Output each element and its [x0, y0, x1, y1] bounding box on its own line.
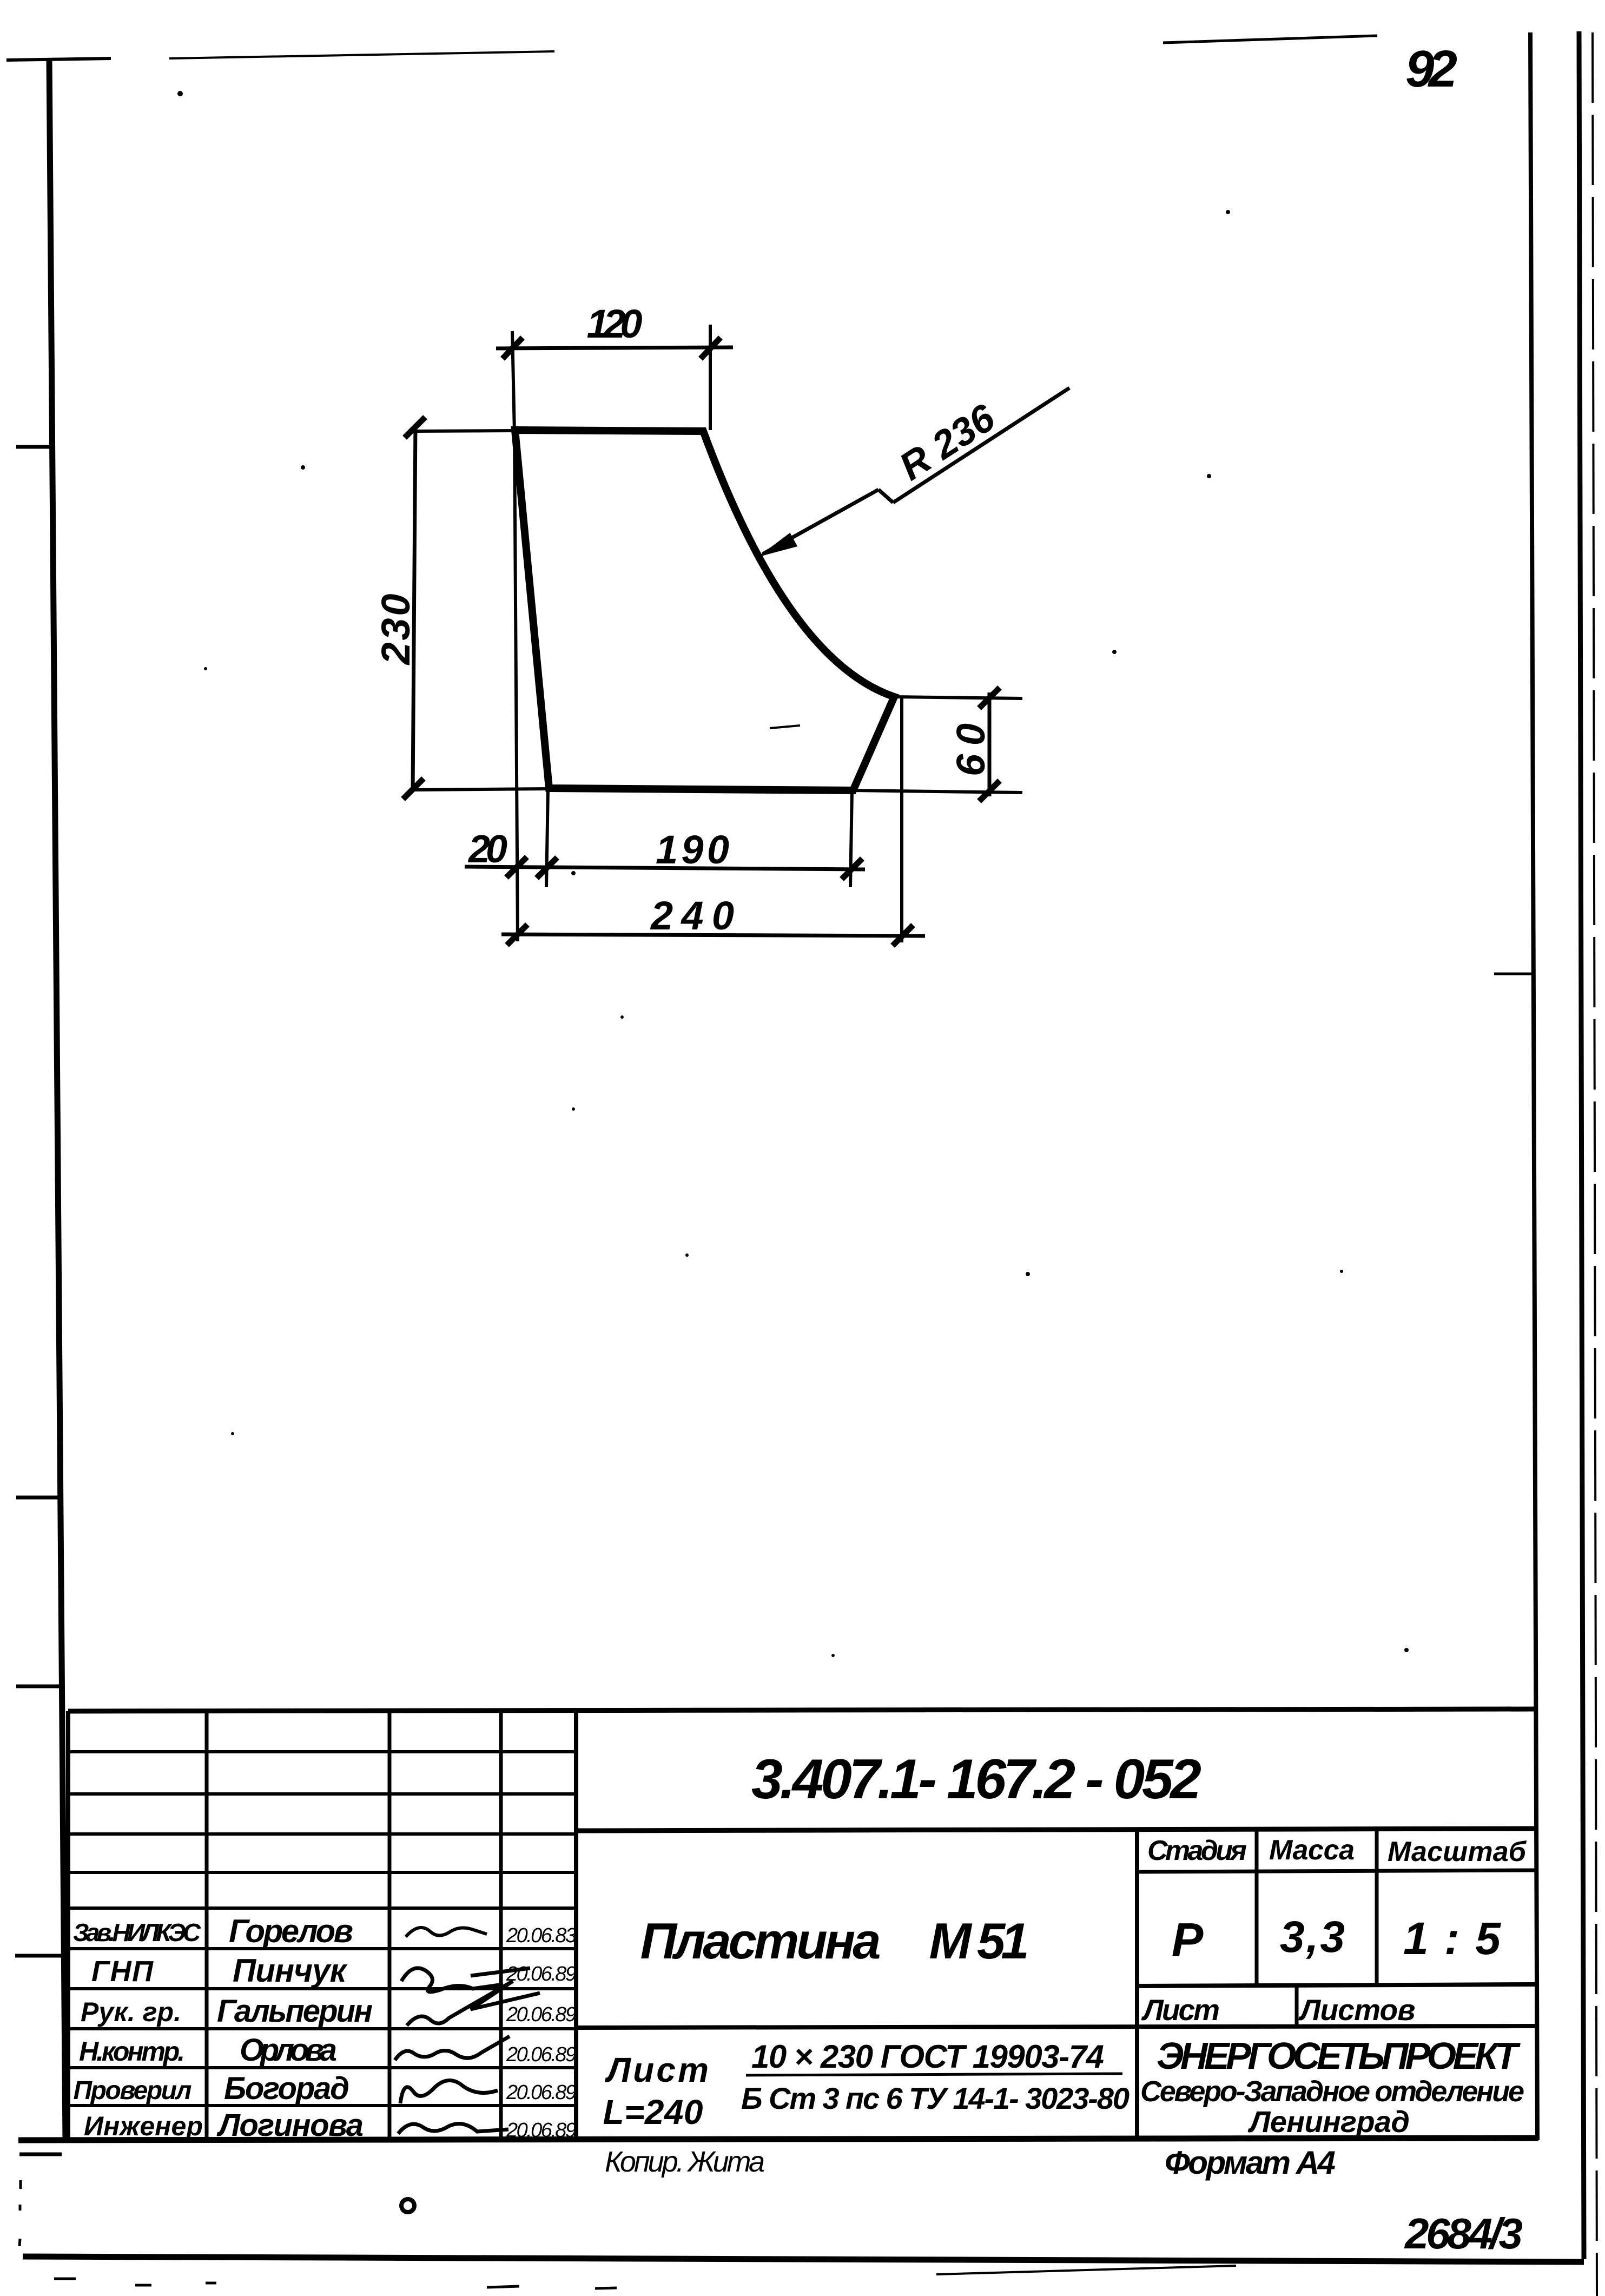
signature scribble row 5 [400, 2080, 498, 2103]
svg-text:Р: Р [1172, 1913, 1204, 1967]
title block bottom border [18, 2138, 1538, 2140]
svg-text:L=240: L=240 [603, 2093, 703, 2132]
scan dashes bottom 4 [487, 2286, 519, 2287]
signature scribble row 2 [401, 1968, 530, 1992]
svg-text:Орлова: Орлова [240, 2033, 337, 2068]
svg-text:ГНП: ГНП [91, 1955, 154, 1988]
frame top border segment B [169, 51, 554, 58]
dimension 230 extension bottom [413, 789, 549, 790]
signature scribble row 6 [398, 2124, 508, 2134]
scan speck dot 2 [1226, 210, 1230, 214]
svg-text:Стадия: Стадия [1147, 1835, 1247, 1866]
signature table row line 5 [68, 1906, 576, 1910]
svg-text:Горелов: Горелов [229, 1913, 353, 1949]
paper edge right line [1579, 31, 1584, 2259]
extension line right for 240 [900, 698, 903, 942]
fold tick right [1494, 973, 1532, 975]
scan artifact line bottom [936, 2266, 1236, 2274]
svg-text:Копир. Жита: Копир. Жита [605, 2146, 765, 2178]
dimension 60 tick top [979, 688, 1000, 708]
svg-text:Логинова: Логинова [216, 2108, 364, 2143]
subtable vertical left [1135, 1830, 1139, 2139]
frame top border segment C [1163, 36, 1377, 43]
dimension 190 tick right [842, 859, 862, 879]
svg-text:3,3: 3,3 [1280, 1912, 1345, 1962]
dimension 60 extension bottom [853, 790, 1022, 793]
svg-text:3.407.1- 167.2 - 052: 3.407.1- 167.2 - 052 [751, 1748, 1201, 1811]
svg-text:Богорад: Богорад [224, 2071, 349, 2106]
signature table row line 7 [68, 1987, 576, 1990]
leader R236 zigzag [879, 490, 893, 503]
svg-text:20.06.89: 20.06.89 [506, 1963, 577, 1985]
svg-text:190: 190 [656, 827, 729, 872]
dimension 230 tick bottom [403, 778, 424, 799]
svg-text:Лист: Лист [605, 2050, 709, 2089]
svg-text:Пинчук: Пинчук [233, 1952, 348, 1989]
svg-text:Н.контр.: Н.контр. [79, 2036, 185, 2067]
signature scribble row 4 [395, 2036, 510, 2060]
svg-text:92: 92 [1405, 40, 1457, 98]
scan dashes bottom 3 [206, 2282, 216, 2285]
svg-text:ЭНЕРГОСЕТЬПРОЕКТ: ЭНЕРГОСЕТЬПРОЕКТ [1157, 2035, 1521, 2077]
dimension 120 line [496, 347, 733, 348]
svg-text:20.06.89: 20.06.89 [506, 2003, 577, 2026]
signature table row line 9 [68, 2066, 576, 2069]
signature table row line 3 [68, 1832, 576, 1836]
svg-text:Проверил: Проверил [74, 2076, 192, 2105]
dimension 230 line [413, 425, 415, 791]
svg-text:М 51: М 51 [929, 1912, 1029, 1969]
interior dash mark [770, 725, 800, 728]
dimension 120 tick left [503, 338, 523, 359]
handwritten small circle [401, 2199, 414, 2212]
signature table row line 6 [68, 1947, 576, 1950]
leader R236 arrow [762, 534, 796, 555]
name row bottom line [576, 2026, 1535, 2028]
svg-text:Листов: Листов [1298, 1993, 1416, 2027]
scan dashes bottom 2 [135, 2284, 151, 2287]
signature table row line 1 [68, 1750, 576, 1753]
svg-text:230: 230 [373, 594, 418, 666]
svg-text:Пластина: Пластина [640, 1912, 881, 1969]
svg-text:Ленинград: Ленинград [1247, 2104, 1410, 2139]
subtable values bottom line [1137, 1984, 1535, 1986]
svg-text:Северо-Западное отделение: Северо-Западное отделение [1140, 2075, 1524, 2108]
dimension 60 extension top [894, 697, 1022, 698]
scan speck dot extra a [301, 465, 305, 470]
extension line from top-left corner down [514, 433, 518, 941]
dimension 20-190 line [465, 867, 865, 869]
svg-text:Формат А4: Формат А4 [1165, 2145, 1336, 2181]
svg-text:1 : 5: 1 : 5 [1403, 1913, 1501, 1964]
signature table vertical col4 [499, 1711, 503, 2139]
signature table vertical col3 [388, 1711, 392, 2139]
frame right border [1530, 32, 1537, 2140]
dimension 60 line [988, 692, 992, 796]
dimension 120 extension left [512, 331, 514, 433]
signature scribble row 1 [406, 1928, 487, 1937]
dimension 20-190 tick middle [537, 857, 557, 878]
svg-text:20: 20 [467, 828, 507, 871]
svg-text:10 × 230 ГОСТ 19903-74: 10 × 230 ГОСТ 19903-74 [751, 2038, 1104, 2075]
frame left border [49, 58, 65, 2141]
fold tick left 1 [16, 445, 51, 449]
designation cell bottom line [576, 1829, 1535, 1831]
scan dashes bottom 1 [54, 2278, 76, 2280]
dimension 240 tick right [893, 925, 913, 946]
plate outline [515, 430, 894, 790]
svg-text:20.06.83: 20.06.83 [506, 1924, 577, 1947]
signature table row line 2 [68, 1792, 576, 1796]
subtable header bottom line [1137, 1870, 1535, 1872]
scan speck dot 1 [177, 91, 183, 96]
list listov divider [1295, 1986, 1299, 2028]
svg-text:Инженер: Инженер [84, 2111, 203, 2141]
extension line from bottom-right slant corner down [850, 790, 852, 887]
dimension 120 tick right [701, 338, 721, 359]
leader R236 segment 1 [763, 490, 879, 554]
signature scribble row 3 [407, 1981, 540, 2026]
dimension 120 extension right [709, 325, 712, 430]
extension line from bottom-left corner down [546, 789, 548, 887]
dimension 230 tick top [405, 417, 425, 438]
scan dashes bottom 5 [595, 2288, 617, 2288]
title block top border [68, 1709, 1535, 1711]
paper edge right dashed line [1593, 32, 1597, 2296]
dimension 20 tick left [506, 857, 527, 878]
leader R236 segment 2 [893, 388, 1069, 503]
scan speck dot 3 [571, 871, 576, 875]
svg-text:2684/3: 2684/3 [1404, 2209, 1523, 2258]
signature table row line 10 [68, 2104, 576, 2107]
svg-text:Масштаб: Масштаб [1388, 1836, 1527, 1868]
fold tick left 2 [16, 1496, 62, 1500]
svg-text:20.06.89: 20.06.89 [506, 2043, 577, 2066]
svg-text:20.06.89: 20.06.89 [506, 2119, 577, 2142]
fold tick left 5 [19, 2153, 62, 2156]
svg-text:120: 120 [587, 301, 643, 346]
frame top border segment A [6, 58, 111, 60]
fold tick left 3 [16, 1685, 63, 1688]
frame bottom border [23, 2257, 1584, 2262]
material fraction bar [746, 2074, 1122, 2075]
svg-text:Рук. гр.: Рук. гр. [81, 1997, 181, 2027]
dimension 60 tick bottom [979, 781, 1000, 801]
signature table vertical right [574, 1711, 578, 2139]
signature table row line 4 [68, 1871, 576, 1874]
signature table row line 8 [68, 2027, 576, 2030]
svg-text:Зав.НИЛКЭС: Зав.НИЛКЭС [73, 1918, 201, 1947]
svg-text:20.06.89: 20.06.89 [506, 2081, 577, 2104]
subtable vertical between Stadiya and Massa [1255, 1830, 1259, 1986]
subtable vertical between Massa and Masshtab [1375, 1830, 1379, 1986]
dimension 240 line [501, 934, 925, 936]
svg-text:240: 240 [650, 893, 734, 938]
signature table vertical left [66, 1711, 70, 2139]
dimension 240 tick left [507, 925, 527, 945]
left frame faint continuation dashes [19, 2180, 22, 2189]
signature table vertical col2 [205, 1711, 209, 2139]
dimension 230 extension top [410, 431, 515, 431]
svg-text:Масса: Масса [1269, 1835, 1355, 1866]
fold tick left 4 [15, 1954, 66, 1958]
svg-text:Б Ст 3 пс 6 ТУ 14-1- 3023-80: Б Ст 3 пс 6 ТУ 14-1- 3023-80 [741, 2081, 1130, 2115]
svg-text:Гальперин: Гальперин [217, 1994, 373, 2029]
svg-text:Лист: Лист [1141, 1993, 1220, 2027]
